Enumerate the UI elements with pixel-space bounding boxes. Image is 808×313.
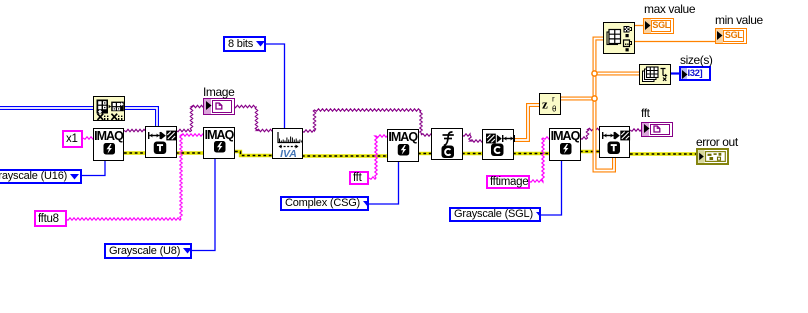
wire: error IMAQ Create 1 to ArrayToImage 1	[124, 151, 146, 154]
wire: error ImageToArray to IMAQ Create 4	[513, 152, 550, 155]
svg-text:z: z	[542, 97, 548, 112]
IMAQ Create VI 3	[387, 129, 419, 162]
wire: image ArrayToImage 1 via Image terminal to IVA	[176, 105, 273, 131]
wire: image IMAQ FFT to ImageToArray	[462, 134, 483, 142]
Complex To Polar function	[539, 93, 561, 115]
IMAQ FFT VI	[431, 128, 463, 161]
SGL indicator max value	[643, 18, 674, 34]
wire: 2D SGL array channel up to Array Max&Min / down around to ArrayToImage 2	[595, 39, 615, 171]
array multiply Xij VI	[93, 96, 125, 121]
label error out	[696, 137, 738, 148]
wire: 2D complex array ImageToArray to Complex-To-Polar	[513, 105, 540, 140]
wire: string fftu8 to IMAQ Create 2	[66, 134, 204, 220]
IMAQ Create VI 2	[203, 127, 235, 159]
IMAQ ArrayToImage VI 2	[599, 126, 630, 158]
IMAQ ImageToArray VI	[482, 129, 514, 160]
wire: error ArrayToImage 1 to IMAQ Create 2	[176, 151, 204, 154]
wire: enum Grayscale U16 to IMAQ Create 1	[82, 160, 105, 176]
wire: error IMAQ Create 3 to IMAQ FFT	[418, 152, 432, 155]
wire: 1D I32 array size to size(s) indicator	[671, 72, 680, 74]
Array Max & Min function	[603, 22, 635, 54]
wire: SGL min to min value indicator	[635, 41, 716, 43]
enum constant Grayscale (SGL)	[449, 207, 541, 222]
wire: string fftimage to IMAQ Create 4	[529, 137, 550, 182]
Array Size function	[639, 64, 671, 85]
wire: image ArrayToImage 2 to fft indicator	[630, 129, 642, 131]
wire: string fft to IMAQ Create 3	[369, 135, 388, 179]
I32 array indicator size(s)	[679, 66, 711, 81]
label fft indicator	[641, 108, 650, 119]
IMAQ ArrayToImage VI 1	[145, 126, 177, 158]
image indicator terminal fft	[641, 122, 673, 137]
wire: enum Complex CSG to IMAQ Create 3	[369, 161, 399, 204]
wire: error IMAQ FFT to ImageToArray	[462, 152, 483, 155]
wire: enum Grayscale SGL to IMAQ Create 4	[541, 160, 562, 215]
wire: 2D SGL array branch to Array Size	[595, 72, 641, 76]
IMAQ Create VI 1	[93, 128, 124, 161]
svg-text:r: r	[552, 95, 555, 104]
wire: error ArrayToImage 2 to error out	[630, 152, 697, 155]
string constant fft	[349, 171, 369, 185]
label size(s)	[680, 55, 713, 66]
IVA FFT VI	[272, 128, 303, 159]
enum constant Grayscale (U16)	[0, 169, 82, 184]
enum constant Complex (CSG)	[280, 196, 369, 211]
label Image	[203, 87, 234, 98]
svg-text:θ: θ	[552, 105, 557, 114]
image indicator terminal Image	[203, 98, 235, 115]
wire: image IMAQ Create 4 to ArrayToImage 2	[580, 128, 600, 139]
error out cluster indicator	[696, 148, 729, 165]
wire: string x1 to IMAQ Create 1	[83, 137, 94, 139]
SGL indicator min value	[715, 28, 747, 44]
label max value	[644, 4, 695, 15]
wire: error IMAQ Create 4 to ArrayToImage 2	[580, 150, 600, 153]
string constant x1	[62, 130, 83, 148]
enum constant 8 bits	[223, 36, 266, 52]
wire: image IMAQ Create 1 to ArrayToImage 1	[124, 129, 146, 131]
wire: image IVA to IMAQ FFT	[302, 109, 432, 136]
string constant fftu8	[34, 210, 67, 227]
junction: orange channel at r output	[592, 96, 597, 101]
svg-text:IVA: IVA	[280, 148, 297, 160]
wire: 2D SGL array r output to channel	[560, 97, 595, 101]
wire: enum Grayscale U8 to IMAQ Create 2	[192, 158, 215, 251]
string constant fftimage	[486, 175, 530, 189]
label min value	[715, 15, 763, 26]
wire: SGL max to max value indicator	[635, 25, 644, 27]
wire: enum 8 bits to IVA	[266, 44, 285, 128]
wire: error IVA to IMAQ Create 3	[302, 154, 388, 157]
wire: error IMAQ Create 2 to IVA (jog)	[235, 152, 273, 156]
wire: 2D U16 array (blue double) from left edge into array-to-image	[0, 108, 157, 127]
enum constant Grayscale (U8)	[104, 243, 192, 259]
junction: orange channel at Array Size branch	[592, 71, 597, 76]
IMAQ Create VI 4	[549, 128, 581, 161]
